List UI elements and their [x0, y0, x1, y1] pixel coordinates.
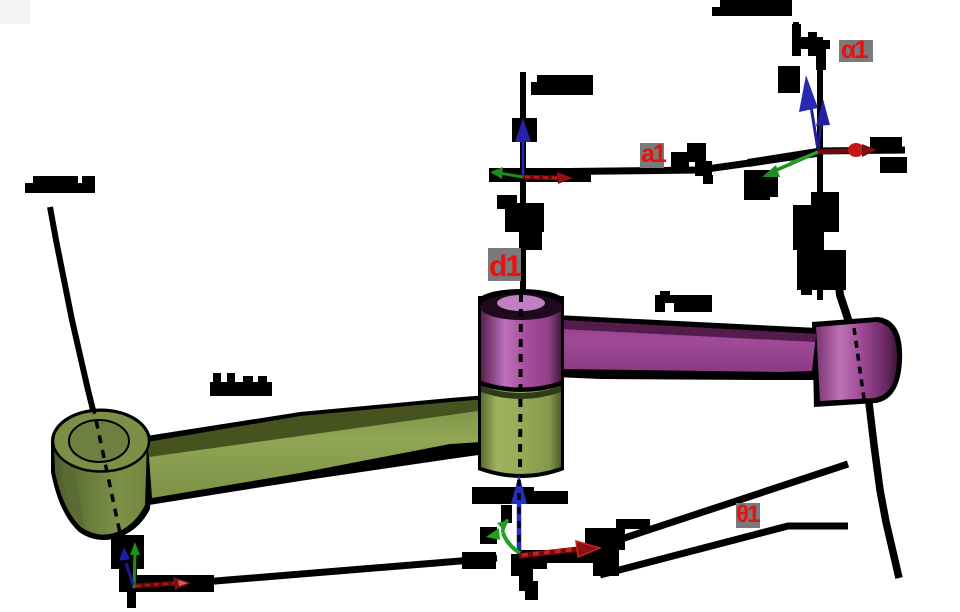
link1 arm top face band [147, 398, 498, 458]
link1 hub top ring [53, 411, 149, 472]
label blobs around frame0 [111, 535, 144, 569]
wire: frame2 x line to right [820, 150, 905, 151]
small blobs above purple arm right [801, 270, 812, 295]
label d1 [488, 248, 521, 281]
label d1 text [489, 252, 520, 282]
link1 arm shadow outline [140, 394, 500, 505]
frame2 z3 blue arrow [810, 100, 818, 150]
label blobs around bottom-center frame [472, 487, 534, 504]
link1 hub hole [69, 420, 129, 462]
frame0 y-axis green arrow [134, 553, 135, 588]
label blobs below frame2 origin [760, 177, 778, 197]
frame1 y-axis green arrow [499, 173, 523, 177]
link2 purple end cap shadow [812, 317, 902, 407]
wire: frame1 vertical axis line [520, 72, 526, 298]
link1 arm face [149, 408, 498, 498]
link2 purple arm body [560, 320, 816, 372]
wire: right vertical line below purple end [869, 403, 899, 578]
bottom frame theta green curved arrow [503, 533, 520, 553]
link2 purple cylinder shadow [478, 296, 564, 392]
label blob near start of diagonals [585, 528, 625, 550]
label blob z1 [537, 75, 593, 95]
link2 purple cylinder top outline [478, 289, 564, 313]
frame2 y-axis green arrows [772, 152, 818, 172]
frame2 z4 blue arrow [818, 112, 822, 150]
label blob theta4 (top) [712, 7, 792, 16]
label blob joint1 [25, 183, 95, 193]
link2 purple cylinder body [481, 303, 561, 388]
wire: frame2 vertical axis line [796, 22, 820, 300]
link2 purple end cap [816, 322, 897, 401]
wire: theta1 dimension line lower diagonal [600, 526, 848, 575]
link1 green cylinder body [481, 386, 561, 474]
label blob right of frame2 [870, 137, 902, 147]
bottom frame x-axis red arrow [519, 549, 580, 556]
frame1 z-axis blue arrow [512, 118, 537, 142]
link1 green cylinder (under purple) shadow [478, 383, 564, 478]
link2 purple arm top band [560, 320, 816, 342]
label blob Link 2 [655, 295, 712, 312]
wire: a1 bottom dimension line frame0 to bottom frame [150, 558, 497, 584]
wire: theta1 dimension line upper diagonal [570, 464, 848, 556]
dashed axis joint2 through column [520, 294, 521, 478]
wire: a1 dimension line frame1 to frame2 [523, 153, 820, 172]
link2 purple cylinder top ring [480, 294, 562, 320]
link1 hub side stripes [62, 452, 84, 527]
link1 hub outline shadow [51, 409, 151, 474]
dashed axis joint1 through hub [93, 406, 120, 533]
bottom frame z-axis blue arrow (pointing up) [517, 500, 522, 554]
frame2 x-axis dark red arrow [818, 150, 868, 152]
frame2 y-axis black bar [748, 152, 818, 163]
frame1 x-axis red dashed arrow [523, 177, 564, 178]
label alpha1 (top right) [839, 40, 873, 62]
link2 purple arm shadow [556, 315, 818, 380]
black bar behind frame1 arrows [489, 168, 591, 182]
label theta1 (bottom right) [736, 503, 760, 528]
label theta1 text [736, 503, 758, 527]
label alpha1 text [841, 38, 866, 63]
label blobs below frame1 origin [497, 195, 517, 209]
label a1 (top) [640, 143, 664, 168]
dashed axis joint3 through purple end [854, 328, 864, 399]
link2 purple cylinder hole [497, 295, 545, 311]
label blob Link 1 [210, 382, 272, 396]
frame0 z-axis blue arrow [126, 563, 133, 585]
label blob near a1 right [671, 152, 689, 168]
frame0 x-axis (dark red dashed arrow) [134, 583, 180, 586]
joint-1 axis extension line (top-left diagonal) [50, 207, 93, 410]
label blob z4 jag top right [792, 24, 801, 56]
faint corner artifact [0, 0, 30, 24]
label a1 text [641, 142, 665, 167]
link1 green cylinder top dark rim [481, 386, 561, 399]
link1 hub side [54, 443, 147, 535]
